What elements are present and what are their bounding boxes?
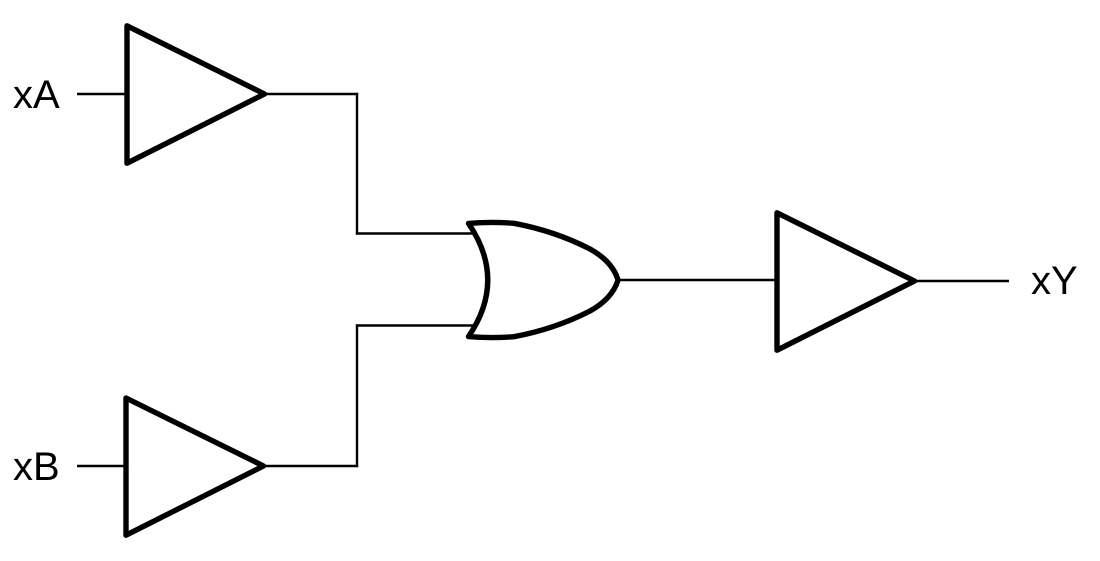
OR gate U1 [469,222,619,337]
buffer Y (triangle, output xY) [777,213,915,350]
wire: buffer B output to vertical riser [264,465,359,467]
svg-text:xA: xA [13,73,60,117]
svg-text:xB: xB [13,445,60,489]
buffer A (triangle, input xA) [127,26,265,163]
wire: OR gate output to buffer Y [615,279,778,281]
wire: buffer Y output stub [915,280,1010,282]
wire: vertical riser up from buffer B [356,324,358,467]
wire: buffer A output to vertical riser [265,93,359,95]
wire: horizontal into OR gate top input [356,232,482,234]
svg-text:xY: xY [1031,259,1078,303]
wire: horizontal into OR gate bottom input [356,324,482,326]
wire: input B stub [77,465,127,467]
wire: vertical riser down from buffer A [356,93,358,235]
buffer B (triangle, input xB) [126,398,264,535]
wire: input A stub [77,93,128,95]
